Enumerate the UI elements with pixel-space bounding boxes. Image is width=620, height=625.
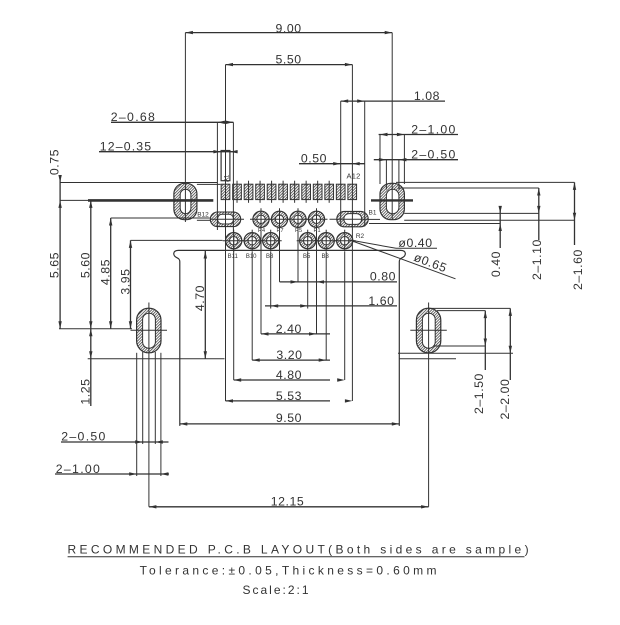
reference line y=358.8 left	[88, 358, 225, 360]
dimension 9.50	[180, 411, 399, 425]
dimension 2.40	[261, 322, 330, 336]
svg-text:5.50: 5.50	[276, 53, 302, 67]
title line 1	[68, 543, 532, 557]
pad R7 (upper row circle)	[269, 208, 291, 230]
reference line oval bottom to 2-1.60	[404, 219, 574, 221]
pad R1 (upper row circle)	[306, 208, 328, 230]
dimension 0.75 and 5.65	[48, 149, 62, 329]
dimension 2-1.00 (bottom left)	[55, 353, 169, 476]
svg-text:Tolerance:±0.05,Thickness=0.60: Tolerance:±0.05,Thickness=0.60mm	[140, 564, 440, 578]
connect line left oval to pad row top	[197, 183, 221, 185]
dimension 5.53	[226, 389, 353, 403]
label B11	[228, 254, 239, 260]
reference line y=182.5 left	[60, 182, 218, 184]
pad R4 (upper row circle)	[250, 208, 272, 230]
svg-text:3.20: 3.20	[276, 348, 302, 362]
svg-text:0.50: 0.50	[301, 152, 327, 166]
svg-text:0.80: 0.80	[370, 270, 396, 284]
center lines bottom-left oval	[131, 303, 168, 359]
svg-text:9.50: 9.50	[276, 411, 302, 425]
dimension 0.80	[280, 270, 397, 284]
svg-text:B10: B10	[246, 254, 257, 260]
dimension 12.15	[149, 359, 429, 509]
shell edge line left (thick)	[60, 199, 214, 201]
svg-text:1.60: 1.60	[368, 294, 394, 308]
svg-text:12.15: 12.15	[271, 495, 305, 509]
oval mounting hole bottom-right	[416, 308, 440, 353]
extension line pad B10 to 3.20	[251, 252, 253, 360]
svg-text:RECOMMENDED P.C.B LAYOUT(Both: RECOMMENDED P.C.B LAYOUT(Both sides are …	[68, 543, 532, 557]
extension line pad R7 to 0.80	[279, 231, 281, 282]
svg-text:5.53: 5.53	[276, 389, 302, 403]
dimension 4.80	[234, 368, 345, 382]
svg-text:12–0.35: 12–0.35	[100, 140, 153, 154]
label B10	[246, 254, 257, 260]
pad B3 (lower row circle)	[315, 230, 337, 252]
oval slot right shell hole	[380, 183, 404, 219]
dimension 0.40 (right)	[489, 206, 503, 277]
connect line left oval to pad B12	[197, 219, 210, 221]
reference line y=328.8	[59, 328, 132, 330]
dimension 2-0.50 (top right)	[374, 148, 458, 190]
svg-text:5.60: 5.60	[79, 252, 93, 278]
label B5	[303, 254, 311, 260]
dimension 12-0.35	[99, 140, 238, 154]
svg-text:B12: B12	[197, 212, 209, 219]
leader dimension dia 0.40	[350, 236, 437, 250]
label B12	[197, 212, 209, 219]
dimension 2-0.68	[111, 110, 234, 232]
label R4	[258, 228, 265, 234]
svg-text:2–0.50: 2–0.50	[411, 148, 456, 162]
svg-text:R2: R2	[356, 233, 365, 240]
dimension 3.20	[252, 348, 330, 362]
pad B11 (lower row circle)	[223, 230, 245, 252]
extension line pad R5 to 0.80	[297, 231, 299, 282]
oval mounting hole bottom-left	[137, 308, 161, 353]
reference line oval inner top to 2-1.10	[399, 187, 539, 189]
label A12	[347, 172, 361, 181]
label R5	[295, 228, 302, 234]
footprint outline	[174, 250, 406, 426]
slot A1	[221, 151, 230, 181]
extension line pad B8 to 1.60	[270, 252, 272, 309]
dimension 2-1.00 (top right)	[379, 122, 458, 184]
svg-text:4.85: 4.85	[99, 259, 113, 285]
label B3	[322, 254, 330, 260]
pad B10 (lower row circle)	[241, 230, 263, 252]
svg-text:5.65: 5.65	[48, 252, 62, 278]
label A1	[224, 174, 230, 182]
svg-text:2–0.50: 2–0.50	[61, 429, 106, 443]
center lines bottom-right oval	[410, 303, 447, 359]
dimension 4.70	[193, 251, 207, 359]
dimension 3.95	[119, 240, 223, 328]
label B8	[266, 254, 274, 260]
svg-text:ø0.40: ø0.40	[398, 236, 432, 250]
title line 2	[140, 564, 440, 578]
dimension 1.60	[265, 294, 397, 308]
svg-text:2–1.00: 2–1.00	[56, 462, 101, 476]
title line 3	[243, 583, 311, 597]
extension lines bottom-left oval inner to 2-0.50	[0, 0, 1, 1]
extension line pad R4 to 2.40	[260, 231, 262, 334]
svg-text:0.75: 0.75	[48, 149, 62, 175]
label R2	[356, 233, 365, 240]
svg-text:4.70: 4.70	[193, 285, 207, 311]
connect line pad B1 to right oval	[368, 218, 380, 220]
svg-text:2–1.50: 2–1.50	[472, 373, 486, 414]
label R7	[276, 228, 283, 234]
svg-text:B5: B5	[303, 254, 311, 260]
extension line pad R2 to 4.80	[344, 252, 346, 380]
svg-text:2–2.00: 2–2.00	[498, 379, 512, 420]
dimension 5.60 and 1.25	[79, 200, 93, 406]
svg-text:2.40: 2.40	[276, 322, 302, 336]
svg-text:9.00: 9.00	[276, 22, 302, 36]
dimension 4.85	[99, 218, 210, 329]
svg-text:B8: B8	[266, 254, 274, 260]
extension line pad B5 to 1.60	[307, 252, 309, 309]
svg-text:2–1.60: 2–1.60	[571, 249, 585, 290]
svg-text:2–0.68: 2–0.68	[111, 110, 156, 124]
extension line pad R1 to 2.40	[316, 231, 318, 334]
dimension 0.50	[299, 152, 365, 166]
dimension 1.08	[341, 89, 445, 227]
label B1	[369, 210, 377, 217]
dimension 2-2.00	[398, 308, 513, 419]
pad B1	[330, 211, 369, 226]
svg-text:2–1.10: 2–1.10	[530, 239, 544, 280]
leader dimension dia 0.65	[351, 241, 456, 279]
extension line pad B11 to 4.80	[233, 232, 235, 380]
pad B8 (lower row circle)	[260, 230, 282, 252]
reference line oval inner bottom to 2-1.10/0.40	[404, 212, 539, 214]
label R1	[313, 228, 320, 234]
oval slot left shell hole	[174, 183, 197, 219]
svg-text:B1: B1	[369, 210, 377, 217]
svg-text:B3: B3	[322, 254, 330, 260]
reference line oval top to 2-1.60	[396, 181, 575, 183]
svg-text:3.95: 3.95	[119, 268, 133, 294]
dimension 2-1.50	[433, 311, 487, 414]
dimension 5.50	[226, 53, 353, 401]
pad R5 (upper row circle)	[287, 208, 309, 230]
extension line pad B3 to 3.20	[325, 252, 327, 360]
dimension 9.00	[185, 22, 392, 222]
pad R2 (lower row circle)	[334, 230, 356, 252]
pad row A1-A12 (12 SMT pads)	[221, 181, 356, 203]
svg-text:4.80: 4.80	[276, 368, 302, 382]
dimension 2-0.50 (bottom left)	[61, 352, 169, 444]
svg-text:A12: A12	[347, 172, 361, 181]
svg-text:1.08: 1.08	[414, 89, 440, 103]
shell edge line right (thick)	[371, 199, 413, 201]
svg-text:ø0.65: ø0.65	[412, 250, 449, 275]
dimension 2-1.60	[571, 182, 585, 290]
reference line y=358.8 right	[399, 358, 456, 360]
dimension 2-1.10	[530, 188, 544, 280]
svg-text:Scale:2:1: Scale:2:1	[243, 583, 311, 597]
svg-text:2–1.00: 2–1.00	[411, 122, 456, 136]
reference line B1 slot bottom to 0.40	[369, 223, 500, 225]
svg-text:1.25: 1.25	[79, 378, 93, 404]
pad B12	[210, 212, 244, 227]
svg-text:B11: B11	[228, 254, 239, 260]
svg-text:0.40: 0.40	[489, 251, 503, 277]
pad B5 (lower row circle)	[297, 230, 319, 252]
